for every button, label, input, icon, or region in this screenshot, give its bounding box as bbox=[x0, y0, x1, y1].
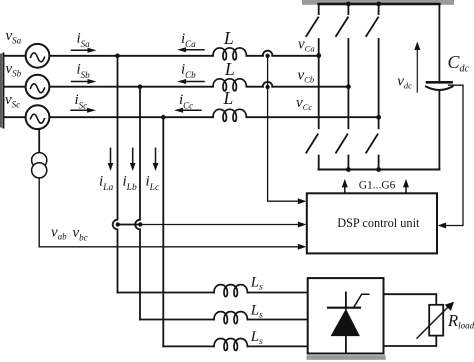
wire: branch b to Ls2 bbox=[140, 319, 214, 321]
switch S4 blade bbox=[306, 134, 317, 152]
converter dc rail right top bbox=[438, 4, 440, 81]
AC source Vsb bbox=[26, 75, 50, 99]
arrow iSa bbox=[72, 48, 97, 53]
switch S2 blade bbox=[366, 134, 377, 152]
junction dot bottom bar leg b bbox=[346, 167, 351, 172]
grid bus hatched bar bbox=[0, 54, 3, 128]
wire: bus to source Vsc bbox=[4, 116, 26, 118]
arrow iCa bbox=[177, 47, 204, 52]
junction dot phase a to leg bbox=[316, 53, 321, 58]
gate signal arrow 1 bbox=[342, 179, 348, 193]
current sensor dot phase a bbox=[265, 54, 269, 58]
thyristor rectifier box bbox=[308, 278, 384, 353]
wire: Ls1 to rectifier bbox=[247, 292, 307, 294]
inductor Ls3 bbox=[214, 339, 247, 351]
arrow into DSP input 3 bbox=[298, 244, 307, 250]
leg a bottom stub bbox=[318, 156, 320, 170]
leg b top stub bbox=[347, 4, 349, 14]
arrow into DSP input 2 bbox=[298, 222, 307, 228]
arrow iSb bbox=[72, 79, 97, 84]
arrow iCc bbox=[174, 108, 201, 113]
sensor wire iLa iLb to DSP bbox=[118, 224, 141, 226]
Rload variable arrow bbox=[417, 302, 454, 338]
gate signal arrow 2 bbox=[403, 179, 409, 193]
leg b bottom stub bbox=[347, 156, 349, 170]
arrow iLb bbox=[130, 148, 136, 171]
capacitor Cdc top plate bbox=[427, 81, 452, 84]
svg-text:L: L bbox=[223, 28, 234, 48]
wire: Ls2 to rectifier bbox=[247, 319, 307, 321]
arrow iLc bbox=[153, 148, 159, 171]
wire: bus to source Vsa bbox=[4, 55, 26, 57]
feedback wire vdc to DSP bbox=[444, 85, 463, 225]
switch S1 blade bbox=[306, 17, 318, 36]
AC source Vsa bbox=[26, 44, 50, 68]
wire: Ls3 to rectifier bbox=[247, 345, 307, 347]
arrow iSc bbox=[71, 108, 96, 113]
inductor L phase b bbox=[213, 79, 246, 91]
arrow into DSP right bbox=[438, 223, 447, 229]
junction dot phase c to leg bbox=[376, 115, 381, 120]
svg-text:G1...G6: G1...G6 bbox=[359, 180, 396, 192]
inductor L phase c bbox=[213, 109, 246, 121]
wire: load branch c vertical bbox=[162, 117, 164, 346]
wire: rectifier to Rload top bbox=[384, 294, 437, 305]
converter top bar bbox=[319, 3, 440, 6]
switch S5 blade bbox=[366, 17, 378, 36]
leg b vertical bbox=[347, 39, 349, 128]
leg a vertical bbox=[318, 39, 320, 128]
inductor L phase a bbox=[213, 48, 246, 60]
sensor wire iCa iCb to DSP bbox=[268, 56, 299, 201]
svg-text:L: L bbox=[223, 88, 234, 108]
junction dot bottom bar leg c bbox=[376, 167, 381, 172]
inductor Ls1 bbox=[214, 285, 247, 297]
wire: source Vsc to converter leg c bbox=[49, 116, 213, 118]
wire: rectifier to Rload bottom bbox=[384, 336, 437, 346]
wire: voltage transformer down and right to DSP bbox=[39, 178, 298, 247]
junction dot phase b to leg bbox=[346, 84, 351, 89]
junction dot top bar leg b bbox=[346, 2, 351, 7]
switch S3 blade bbox=[336, 17, 348, 36]
leg a top stub bbox=[318, 4, 320, 14]
svg-text:L: L bbox=[224, 59, 235, 79]
inductor Ls2 bbox=[214, 312, 247, 324]
rectifier gray smudge bottom bbox=[307, 355, 386, 360]
wire: branch c to Ls3 bbox=[163, 345, 214, 347]
voltage transformer (two circles) bbox=[32, 153, 47, 178]
junction dot top bar leg c bbox=[376, 2, 381, 7]
svg-text:DSP control unit: DSP control unit bbox=[337, 216, 420, 230]
wire: source Vsb to converter leg b bbox=[49, 86, 213, 88]
arrow vdc bbox=[414, 42, 420, 93]
node dot phase a branch bbox=[115, 54, 120, 59]
current sensor hop phase b bbox=[263, 82, 273, 87]
AC source Vsc bbox=[26, 105, 50, 129]
current sensor dot on branch a bbox=[116, 222, 120, 226]
switch S6 blade bbox=[336, 134, 347, 152]
DSP control unit box bbox=[307, 193, 437, 253]
thyristor T1 bbox=[328, 292, 369, 352]
leg c top stub bbox=[378, 4, 380, 14]
wire: bus to source Vsb bbox=[4, 86, 26, 88]
node dot phase b branch bbox=[138, 84, 143, 89]
converter bottom bar bbox=[319, 169, 440, 171]
arrow iCb bbox=[177, 79, 204, 84]
node dot phase c branch bbox=[161, 115, 166, 120]
current sensor dot phase b bbox=[265, 85, 269, 89]
arrow into DSP input 1 bbox=[298, 198, 307, 204]
wire: branch a to Ls1 bbox=[118, 292, 215, 294]
converter dc rail right bottom bbox=[438, 91, 440, 170]
wire: load branch a vertical bbox=[113, 56, 118, 293]
current sensor dot on branch b bbox=[138, 222, 142, 226]
wire: source Vsa to converter leg a bbox=[49, 55, 213, 57]
leg c bottom stub bbox=[378, 156, 380, 170]
resistor Rload body bbox=[429, 305, 443, 336]
current sensor hop phase a bbox=[263, 51, 273, 56]
arrow iLa bbox=[108, 148, 114, 171]
converter top bar gray smudge bbox=[302, 0, 454, 5]
wire: load branch b vertical bbox=[135, 87, 140, 320]
wire: source Vsc down to voltage transformer bbox=[38, 129, 40, 153]
capacitor Cdc bottom plate (curved) bbox=[426, 87, 453, 91]
leg c vertical bbox=[378, 39, 380, 128]
